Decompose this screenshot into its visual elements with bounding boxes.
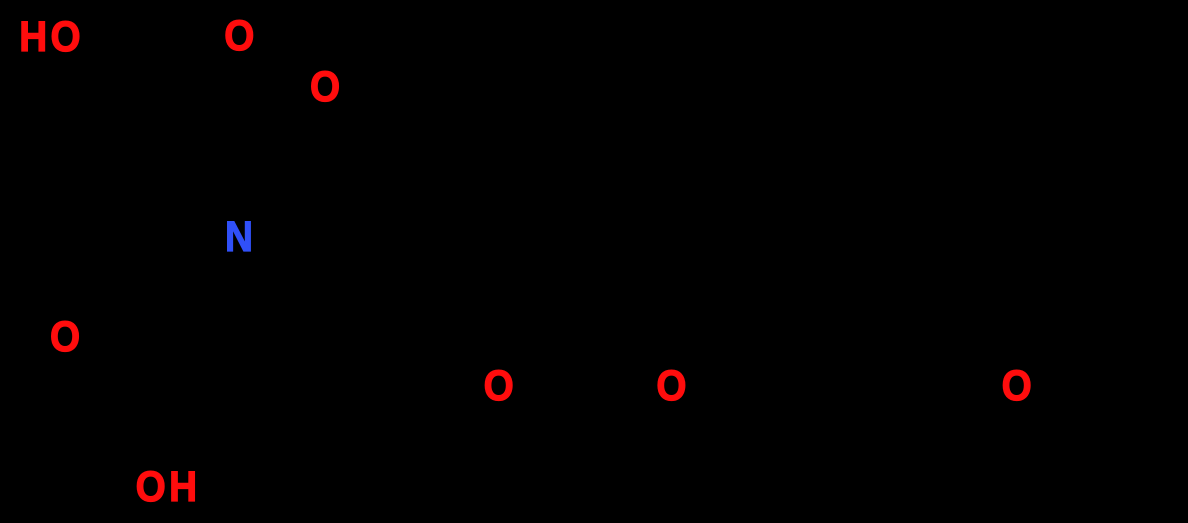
bond O6-C(aryl BL) [684,367,779,371]
svg-text:OH: OH [136,462,201,510]
bond C1-CH2a [148,14,152,150]
aromatic inner double line TR-BR [970,255,974,356]
svg-text:O: O [484,361,514,409]
svg-text:O: O [224,11,254,59]
svg-text:O: O [1002,361,1032,409]
bond V1-V2 (CH2 to ester carbonyl) [416,232,501,305]
benzene ring edge B-BL [779,367,883,427]
bond O7-CH3 (methyl) [1031,397,1098,441]
double bond C3=O3 (amide carbonyl) [317,104,321,180]
benzene ring edge T-TR [883,184,986,244]
bond CH2a-N [150,150,233,230]
svg-text:O: O [50,312,80,360]
benzene ring edge BR-B [883,367,986,427]
double bond V2=O5 (ester carbonyl) [491,305,495,368]
benzene ring edge BL-TL [777,244,781,367]
double bond C2=O4 [79,353,148,402]
svg-text:N: N [225,212,253,260]
bond C2-O(H2) bottom hydroxyl [150,400,154,468]
bond C3-V1 (CH2 of malonyl) [325,180,416,232]
bond CH2b-C2 (second carboxyl carbon) [152,305,174,400]
bond C(aryl BR)-O7 (methoxy oxygen) [986,367,1006,374]
bond V2-O6 (ester oxygen) [501,305,660,373]
double bond C1=O2 (carboxyl carbonyl) [152,16,220,38]
svg-text:HO: HO [19,12,84,60]
bond N-C3 (amide carbonyl carbon) [253,180,325,234]
bond N-CH2b [174,250,231,305]
benzene ring edge TL-T [779,184,883,244]
svg-text:O: O [310,62,340,110]
benzene ring edge TR-BR [984,244,988,367]
bond O(H)-C1 (hydroxyl to carboxyl carbon C1) [103,14,150,37]
aromatic inner double line TL-T [793,205,879,255]
aromatic inner double line B-BL [793,356,879,406]
svg-text:O: O [656,361,686,409]
